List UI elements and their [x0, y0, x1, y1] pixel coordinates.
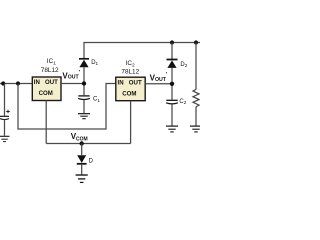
wire: D2 to node	[171, 68, 173, 82]
wire: IC2 COM down	[130, 101, 132, 144]
ground: under resistor	[190, 126, 202, 132]
regulator U1 box 78L12	[32, 77, 61, 101]
label VOUT' (IC1 output)	[62, 70, 80, 81]
capacitor CIN plus sign	[6, 110, 9, 113]
label D1	[91, 60, 98, 66]
label IC2	[126, 60, 135, 68]
wire: input rail from left edge to IC1 IN	[0, 83, 32, 85]
node: rail junction at D2	[170, 40, 174, 44]
wire: rail to D2	[171, 43, 173, 60]
wire: VCOM node to D	[81, 144, 83, 156]
svg-text:IN: IN	[118, 79, 124, 86]
wire: IC2 OUT to node	[145, 83, 172, 85]
wire: left input capacitor branch	[4, 84, 6, 116]
label 78L12 (IC2)	[121, 69, 139, 76]
regulator U2 box 78L12	[116, 77, 145, 101]
svg-text:VOUT′: VOUT′	[150, 72, 168, 83]
svg-text:VOUT′: VOUT′	[62, 70, 80, 81]
svg-text:OUT: OUT	[45, 79, 58, 86]
wire: IC1 OUT to node	[61, 83, 84, 85]
svg-text:OUT: OUT	[129, 79, 142, 86]
label VCOM	[71, 132, 88, 143]
node: VCOM junction at D	[80, 141, 84, 145]
node: VOUT'1 junction	[82, 81, 86, 85]
label C1	[93, 97, 100, 103]
svg-text:78L12: 78L12	[121, 69, 139, 76]
ground: under C1	[78, 114, 90, 119]
wire: VCOM rail	[46, 143, 130, 145]
svg-text:IN: IN	[34, 79, 40, 86]
node: rail junction at R	[194, 40, 198, 44]
svg-text:VCOM: VCOM	[71, 132, 88, 143]
wire: top rail	[84, 43, 200, 59]
node: input junction at battery branch	[1, 81, 5, 85]
capacitor C1	[78, 96, 90, 100]
svg-text:COM: COM	[39, 90, 53, 97]
capacitor CIN (input electrolytic)	[0, 116, 9, 119]
svg-text:D2: D2	[180, 62, 187, 68]
wire: IC2 input routing (input rail down and under IC1)	[18, 84, 116, 130]
svg-text:78L12: 78L12	[41, 67, 59, 74]
label D2	[180, 62, 187, 68]
capacitor C2	[166, 100, 178, 104]
diode D2	[167, 60, 178, 68]
resistor R	[193, 89, 199, 107]
wire: resistor to ground	[195, 107, 197, 126]
label IC1	[47, 58, 56, 66]
wire: C1 to ground	[83, 100, 85, 113]
ground: under C2	[166, 126, 178, 132]
diode D	[77, 155, 87, 164]
svg-text:COM: COM	[122, 90, 136, 97]
wire: D to ground	[81, 165, 83, 175]
label D	[89, 159, 94, 165]
svg-text:D1: D1	[91, 60, 98, 66]
node: input junction at IC2 feed branch	[16, 81, 20, 85]
wire: C2 to ground	[171, 104, 173, 125]
ground: under CIN	[0, 136, 10, 141]
label 78L12 (IC1)	[41, 67, 59, 74]
svg-text:C2: C2	[179, 99, 186, 105]
label C2	[179, 99, 186, 105]
wire: rail to resistor R	[195, 43, 197, 90]
svg-text:C1: C1	[93, 97, 100, 103]
diode D1	[79, 59, 89, 68]
wire: D1 to node	[83, 67, 85, 81]
wire: CIN to ground	[4, 120, 6, 136]
svg-text:IC1: IC1	[47, 58, 56, 66]
svg-text:D: D	[89, 159, 94, 165]
label VOUT' (IC2 output)	[150, 72, 168, 83]
wire: node to C2	[171, 86, 173, 100]
node: VOUT'2 junction	[170, 82, 174, 86]
svg-text:IC2: IC2	[126, 60, 135, 68]
ground: under D	[76, 175, 88, 182]
wire: IC1 COM down	[45, 101, 47, 144]
wire: node to C1	[83, 86, 85, 96]
